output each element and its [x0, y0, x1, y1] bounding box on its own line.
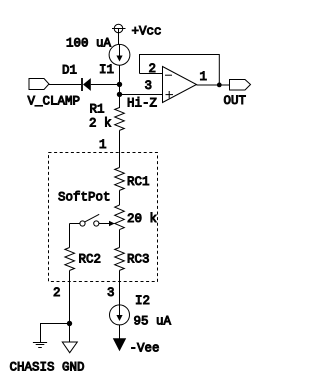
port V_CLAMP — [29, 79, 49, 90]
current source I2 — [110, 305, 130, 325]
svg-text:R1: R1 — [90, 103, 105, 117]
svg-text:20 k: 20 k — [127, 212, 157, 226]
wire node to op-amp pin 3 — [120, 94, 163, 96]
wire port to diode — [49, 84, 81, 86]
svg-text:Hi-Z: Hi-Z — [127, 97, 158, 111]
switch contact right — [94, 221, 99, 226]
wire RC2 to ground junction — [69, 270, 71, 342]
diode D1 — [82, 78, 91, 91]
svg-text:2: 2 — [53, 286, 61, 300]
svg-text:100 uA: 100 uA — [66, 37, 112, 51]
svg-text:+Vcc: +Vcc — [132, 25, 162, 39]
junction node Hi-Z — [117, 92, 122, 97]
chassis ground — [33, 343, 47, 348]
svg-text:I2: I2 — [135, 294, 150, 308]
svg-text:2 k: 2 k — [89, 117, 112, 131]
svg-text:RC2: RC2 — [79, 253, 102, 267]
svg-text:1: 1 — [99, 138, 107, 152]
svg-text:RC1: RC1 — [127, 175, 150, 189]
svg-text:I1: I1 — [99, 63, 114, 77]
power +Vcc — [112, 24, 126, 44]
wire feedback to pin 2 — [140, 73, 163, 75]
wire node to node2 — [119, 84, 121, 95]
resistor RC2 — [65, 248, 75, 271]
wire feedback left vertical — [139, 54, 141, 74]
resistor R1 — [115, 95, 125, 131]
switch blade — [85, 214, 99, 222]
current source I1 — [109, 44, 130, 65]
svg-text:3: 3 — [145, 79, 153, 93]
svg-text:V_CLAMP: V_CLAMP — [28, 95, 81, 109]
svg-text:D1: D1 — [62, 64, 77, 78]
wire switch to corner — [70, 223, 80, 225]
junction ground node — [67, 321, 72, 326]
wiper arrow — [99, 221, 115, 227]
wire corner down to RC2 — [69, 224, 71, 248]
wire RC3 to node 3 — [119, 270, 121, 304]
resistor RC1 — [115, 168, 125, 191]
svg-text:-Vee: -Vee — [130, 342, 160, 356]
svg-text:OUT: OUT — [224, 94, 247, 108]
resistor RC3 — [115, 248, 125, 271]
ground GND — [62, 342, 77, 353]
svg-text:CHASIS GND: CHASIS GND — [10, 361, 85, 375]
wire feedback right vertical — [218, 54, 220, 85]
wire to chassis ground — [41, 324, 70, 343]
svg-text:RC3: RC3 — [127, 253, 150, 267]
potentiometer 20 k element — [115, 205, 125, 230]
junction output node — [217, 83, 222, 88]
wire R1 to RC1 — [119, 130, 121, 167]
wire I1 to node — [119, 65, 121, 84]
power -Vee terminal — [113, 338, 126, 351]
wire feedback top — [140, 54, 220, 56]
wire op-amp output — [197, 84, 230, 86]
svg-text:SoftPot: SoftPot — [58, 191, 111, 205]
op-amp U1 — [163, 67, 197, 103]
wire pot to RC3 — [119, 230, 121, 248]
wire I2 to -Vee — [119, 325, 121, 339]
wire diode to node — [91, 84, 120, 86]
svg-text:95 uA: 95 uA — [134, 315, 172, 329]
wire RC1 to pot — [119, 190, 121, 205]
port OUT — [230, 80, 251, 91]
junction node top — [117, 82, 122, 87]
svg-text:3: 3 — [107, 286, 115, 300]
svg-text:1: 1 — [200, 70, 208, 84]
switch contact left — [80, 221, 85, 226]
SoftPot module box — [49, 153, 158, 282]
